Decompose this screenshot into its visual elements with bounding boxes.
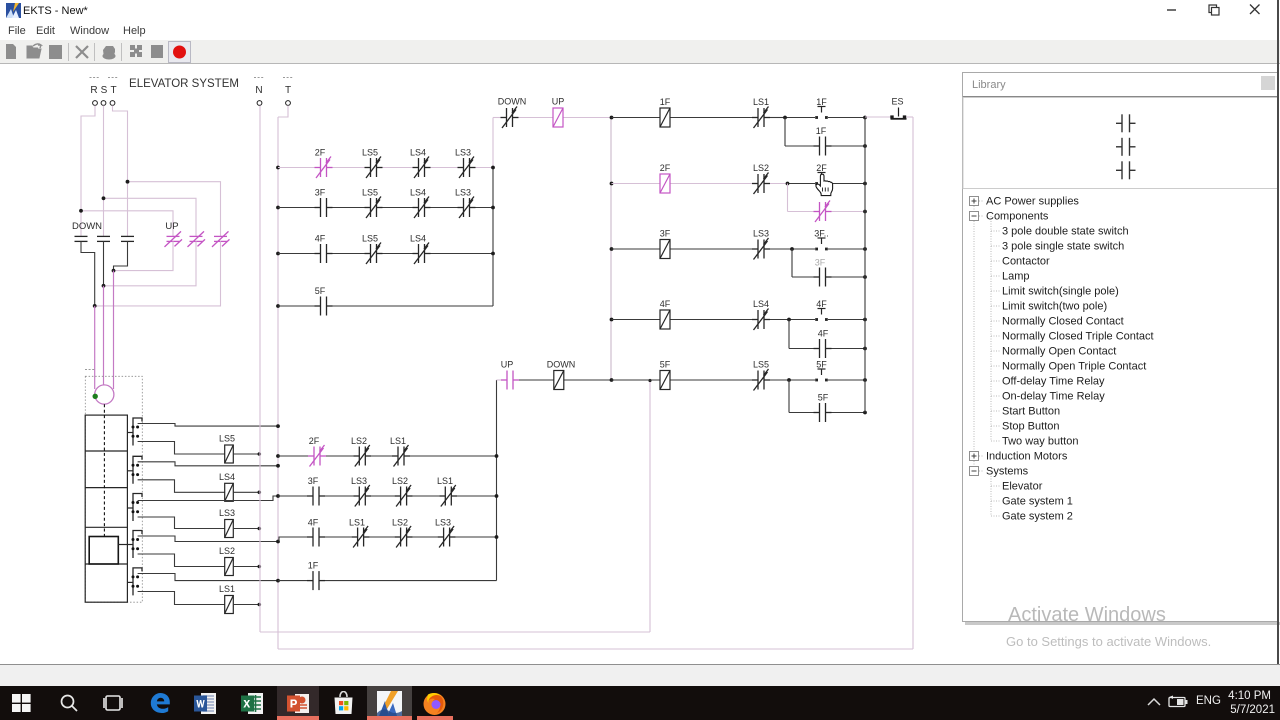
contact LS4 NC row3 — [413, 243, 431, 265]
tree node Components — [979, 215, 984, 217]
panel shadow — [965, 622, 1280, 625]
junction bus parallel 4F — [863, 347, 867, 351]
junction bus parallel 1F — [863, 144, 867, 148]
floor line 4/3 — [85, 487, 127, 489]
wire rowA segs — [278, 455, 308, 457]
contact UP NO rung2 — [501, 371, 519, 390]
contact LS1 NC rowA — [392, 445, 410, 467]
tree node Induction Motors — [979, 455, 984, 457]
junction parallel 4F — [787, 318, 791, 322]
new icon — [6, 44, 16, 59]
wire LS1 pole1 to rail — [138, 574, 278, 581]
library preview box — [963, 98, 1278, 189]
svg-text:2F: 2F — [660, 163, 671, 173]
wire shaft stub LS4 — [127, 470, 133, 472]
contact LS5 NC row1 — [365, 157, 383, 179]
svg-text:Induction Motors: Induction Motors — [986, 451, 1068, 463]
svg-text:1F: 1F — [816, 97, 827, 107]
svg-text:3F: 3F — [660, 229, 671, 239]
stop button ES — [891, 108, 907, 119]
junction bus parallel 5F — [863, 411, 867, 415]
junction T rail rowA — [276, 454, 280, 458]
tree node Systems — [979, 470, 984, 472]
motor run indicator — [93, 394, 98, 399]
svg-text:LS3: LS3 — [455, 148, 471, 158]
start button 3F — [818, 238, 826, 244]
window buttons — [1160, 0, 1280, 20]
wire rung 4F segs — [612, 319, 661, 321]
tree leaf Limit switch(two pole) — [991, 305, 1000, 307]
wire UP out 3 — [95, 241, 221, 306]
wire LS2 pole1 to rail — [138, 536, 278, 542]
firefox — [422, 691, 447, 716]
junction LS2 N rail — [258, 565, 262, 569]
wire LS3 to N rail — [233, 528, 258, 530]
contact LS5 NC rung 5F — [752, 369, 770, 391]
contact 5F NO row4 — [315, 297, 333, 316]
svg-text:Contactor: Contactor — [1002, 256, 1050, 268]
svg-text:LS3: LS3 — [435, 518, 451, 528]
contactor UP contact 3 — [212, 231, 230, 247]
record button (selected) — [169, 42, 191, 63]
wire N rail — [259, 106, 261, 633]
wire LS3 pole2 to switch — [138, 517, 225, 529]
wire branch S to UP 2 — [104, 198, 197, 236]
svg-text:3F: 3F — [308, 476, 319, 486]
svg-text:DOWN: DOWN — [498, 97, 527, 107]
start button 5F — [818, 369, 826, 375]
mouse cursor — [816, 174, 833, 195]
svg-text:LS3: LS3 — [455, 188, 471, 198]
limit switch LS5 — [225, 445, 234, 463]
wire right ladder rail — [610, 118, 612, 381]
wire to ES — [865, 116, 891, 118]
contact 2F NC parallel — [814, 201, 832, 223]
library panel — [962, 72, 1278, 622]
wire row1 segs — [278, 167, 315, 169]
wire phase S — [103, 106, 105, 237]
stop icon — [151, 45, 163, 58]
svg-text:LS1: LS1 — [437, 476, 453, 486]
title bar — [0, 0, 1280, 22]
wire shaft stub LS5 — [127, 432, 133, 434]
floor line 5/4 — [85, 450, 127, 452]
svg-text:Two way button: Two way button — [1002, 436, 1078, 448]
svg-text:Normally Closed Triple Contact: Normally Closed Triple Contact — [1002, 331, 1154, 343]
junction bus parallel 2F — [863, 210, 867, 214]
contact LS2 NC rowC — [395, 526, 413, 548]
wire LS1 to N rail — [233, 604, 258, 606]
contact LS2 NC rowA — [353, 445, 371, 467]
svg-text:Limit switch(single pole): Limit switch(single pole) — [1002, 286, 1119, 298]
excel — [241, 693, 264, 714]
wire motor feed 1 — [94, 306, 96, 389]
contact 3F NO parallel — [814, 268, 832, 287]
floor line 2/1 — [85, 563, 127, 565]
svg-text:LS1: LS1 — [219, 584, 235, 594]
coil 3F — [660, 240, 670, 259]
contact LS1 NC rowC — [352, 526, 370, 548]
tree leaf Normally Open Contact — [991, 350, 1000, 352]
tree leaf 3 pole single state switch — [991, 245, 1000, 247]
contact LS1 NC rung 1F — [752, 107, 770, 129]
svg-text:LS4: LS4 — [219, 472, 235, 482]
junction bus A row3 — [491, 252, 495, 256]
tree leaf Normally Closed Triple Contact — [991, 335, 1000, 337]
store — [332, 691, 355, 715]
junction rail rung 2F — [610, 182, 614, 186]
contact LS1 NC rowB — [439, 485, 457, 507]
contact 2F NC rowA — [308, 445, 326, 467]
wire bus B — [496, 380, 498, 581]
svg-text:3F: 3F — [315, 188, 326, 198]
delete icon — [76, 46, 88, 58]
svg-text:3F: 3F — [815, 258, 826, 268]
limit switch LS4 — [225, 483, 234, 501]
svg-text:Limit switch(two pole): Limit switch(two pole) — [1002, 301, 1107, 313]
wire parallel branch 1F — [784, 118, 786, 147]
coil 2F — [660, 174, 670, 193]
contact 4F NO parallel — [814, 339, 832, 358]
svg-text:1F: 1F — [660, 97, 671, 107]
taskbar — [0, 686, 1280, 720]
wire bus A upper — [492, 118, 494, 168]
junction T rail row4 — [276, 304, 280, 308]
svg-text:Start Button: Start Button — [1002, 406, 1060, 418]
wire phase T — [113, 106, 128, 237]
contactor DOWN contact 1 — [75, 236, 88, 241]
svg-text:LS3: LS3 — [753, 229, 769, 239]
contactor UP contact 1 — [165, 231, 183, 247]
svg-text:R: R — [90, 85, 97, 96]
svg-text:LS4: LS4 — [410, 188, 426, 198]
wire N return bottom — [260, 631, 650, 633]
wire bus A — [492, 168, 494, 307]
node R terminal dots — [90, 77, 100, 79]
tray — [1146, 697, 1162, 707]
task view — [103, 694, 123, 712]
wire T rail elbow — [278, 106, 288, 118]
contact DOWN NC — [501, 107, 519, 129]
elevator bounds marker — [85, 369, 95, 371]
junction LS4 N rail — [258, 491, 262, 495]
svg-text:4F: 4F — [315, 234, 326, 244]
svg-text:5F: 5F — [816, 360, 827, 370]
contact 4F NO rowC — [307, 528, 325, 547]
svg-text:S: S — [101, 85, 108, 96]
junction bus rung 4F — [863, 318, 867, 322]
junction parallel 2F — [786, 182, 790, 186]
svg-text:N: N — [255, 85, 262, 96]
contact LS5 NC row2 — [365, 197, 383, 219]
junction T rail row2 — [276, 206, 280, 210]
svg-text:LS1: LS1 — [753, 97, 769, 107]
wire shaft stub LS3 — [127, 507, 133, 509]
elevator component dashed bounds — [85, 376, 142, 602]
start button — [12, 694, 31, 712]
wire LS2 to N rail — [233, 566, 258, 568]
svg-text:DOWN: DOWN — [547, 360, 576, 370]
tree leaf Stop Button — [991, 425, 1000, 427]
wire rung 5F segs — [612, 379, 661, 381]
junction rail rung 1F — [610, 116, 614, 120]
svg-text:LS2: LS2 — [392, 518, 408, 528]
svg-text:LS1: LS1 — [349, 518, 365, 528]
svg-text:On-delay Time Relay: On-delay Time Relay — [1002, 391, 1105, 403]
limit switch bracket LS5 — [133, 418, 142, 446]
wire LS2 pole2 to switch — [138, 554, 225, 567]
tree leaf Elevator — [991, 485, 1000, 487]
junction motor wire 2 — [102, 284, 106, 288]
junction bus rung 2F — [863, 182, 867, 186]
powerpoint — [277, 686, 319, 720]
contact 2F NC row1 — [315, 157, 333, 179]
svg-text:LS3: LS3 — [219, 508, 235, 518]
bracket contacts LS5 — [132, 426, 135, 429]
junction T rail f5 — [276, 424, 280, 428]
svg-text:LS4: LS4 — [410, 234, 426, 244]
wire LS5 pole1 to rail — [138, 424, 278, 427]
svg-text:LS2: LS2 — [351, 436, 367, 446]
tree leaf Start Button — [991, 410, 1000, 412]
bracket contacts LS4 — [132, 464, 135, 467]
junction bus rung 3F — [863, 247, 867, 251]
wire UP out 2 — [104, 241, 197, 285]
contact LS3 NC rowC — [438, 526, 456, 548]
junction motor wire 1 — [112, 269, 116, 273]
svg-text:AC Power supplies: AC Power supplies — [986, 196, 1079, 208]
junction R-UP — [79, 209, 83, 213]
activate windows watermark — [1008, 604, 1166, 627]
contact 3F NO rowB — [307, 487, 325, 506]
junction T rail rowB — [276, 494, 280, 498]
svg-text:LS5: LS5 — [362, 188, 378, 198]
preview: normally open triple contact — [1116, 114, 1136, 179]
svg-text:ELEVATOR SYSTEM: ELEVATOR SYSTEM — [129, 78, 239, 90]
junction bus parallel 3F — [863, 275, 867, 279]
simulate icon — [130, 45, 135, 50]
junction bus rung 1F — [863, 116, 867, 120]
tree leaf Off-delay Time Relay — [991, 380, 1000, 382]
tree leaf Gate system 2 — [991, 515, 1000, 517]
wire rowD segs — [278, 580, 307, 582]
wire row3 segs — [278, 253, 315, 255]
search — [59, 693, 79, 713]
wire rowC segs — [279, 537, 307, 542]
wire DOWN out 2 — [103, 241, 105, 285]
svg-text:UP: UP — [552, 97, 565, 107]
svg-text:3F..: 3F.. — [814, 229, 829, 239]
wire parallel branch 4F — [788, 320, 790, 349]
wire branch R to UP 1 — [81, 211, 173, 237]
svg-text:Normally Open Triple Contact: Normally Open Triple Contact — [1002, 361, 1146, 373]
contact LS3 NC row1 — [458, 157, 476, 179]
tree leaf Lamp — [991, 275, 1000, 277]
limit switch bracket LS3 — [133, 494, 142, 522]
junction bus A row1 — [491, 166, 495, 170]
coil 1F — [660, 108, 670, 127]
junction bus A row2 — [491, 206, 495, 210]
junction bus B rowB — [495, 494, 499, 498]
junction parallel 3F — [790, 247, 794, 251]
contact LS3 NC row2 — [458, 197, 476, 219]
junction bus B rowC — [495, 535, 499, 539]
svg-text:Normally Open Contact: Normally Open Contact — [1002, 346, 1116, 358]
contactor DOWN contact 3 — [121, 236, 134, 241]
svg-text:2F: 2F — [816, 163, 827, 173]
junction T rail row1 — [276, 166, 280, 170]
wire T rail — [277, 117, 279, 649]
limit switch bracket LS1 — [133, 568, 142, 596]
wire DOWN out 3 — [114, 241, 128, 270]
contact 4F NO row3 — [315, 244, 333, 263]
svg-text:LS2: LS2 — [753, 163, 769, 173]
svg-text:1F: 1F — [308, 561, 319, 571]
status bar — [0, 664, 1280, 686]
svg-text:Off-delay Time Relay: Off-delay Time Relay — [1002, 376, 1105, 388]
svg-text:UP: UP — [165, 221, 178, 232]
contact LS3 NC rung 3F — [752, 238, 770, 260]
svg-text:5F: 5F — [660, 360, 671, 370]
limit switch LS1 — [225, 596, 234, 614]
tree leaf Two way button — [991, 440, 1000, 442]
save icon — [49, 45, 62, 59]
svg-text:Elevator: Elevator — [1002, 481, 1043, 493]
wire LS4 pole1 to rail — [138, 462, 278, 466]
junction N riser — [648, 379, 651, 382]
junction bus rung 5F — [863, 378, 867, 382]
wire parallel branch 2F — [787, 184, 789, 212]
svg-text:LS3: LS3 — [351, 476, 367, 486]
svg-text:4F: 4F — [660, 299, 671, 309]
open icon — [27, 46, 41, 58]
node T terminal dots — [108, 77, 118, 79]
contact LS4 NC row1 — [413, 157, 431, 179]
wire N return riser — [649, 381, 651, 633]
wire row2 segs — [278, 207, 315, 209]
wire phase R — [81, 106, 95, 237]
junction T rail rowD — [276, 579, 280, 583]
wire T return bottom — [278, 648, 913, 650]
wire rung 3F segs — [612, 248, 661, 250]
svg-text:DOWN: DOWN — [72, 221, 102, 232]
limit switch bracket LS2 — [133, 531, 142, 559]
ekts (active) — [367, 686, 412, 720]
wire rung 2F segs — [612, 183, 661, 185]
start button 4F — [818, 309, 826, 315]
limit switch LS3 — [225, 520, 234, 538]
edge — [149, 692, 171, 714]
wire LS4 to N rail — [233, 491, 258, 493]
svg-text:4F: 4F — [308, 518, 319, 528]
library tree connector lines — [973, 201, 975, 471]
bracket contacts LS2 — [132, 538, 135, 541]
tree leaf On-delay Time Relay — [991, 395, 1000, 397]
word — [194, 693, 217, 714]
wire LS4 pole2 to switch — [138, 480, 225, 493]
print icon — [103, 46, 115, 58]
svg-text:Systems: Systems — [986, 466, 1029, 478]
coil UP — [553, 108, 563, 127]
svg-text:2F: 2F — [315, 148, 326, 158]
contactor DOWN contact 2 — [97, 236, 110, 241]
junction LS5 N rail — [258, 452, 262, 456]
junction rail rung 3F — [610, 247, 614, 251]
wire rung2 segs — [497, 379, 502, 381]
contact LS3 NC rowB — [353, 485, 371, 507]
contact 1F NO rowD — [307, 571, 325, 590]
tree leaf Gate system 1 — [991, 500, 1000, 502]
svg-text:Components: Components — [986, 211, 1049, 223]
tree leaf Contactor — [991, 260, 1000, 262]
contact 1F NO parallel — [814, 137, 832, 156]
wire motor feed 2 — [103, 286, 105, 385]
svg-text:UP: UP — [501, 360, 514, 370]
junction LS1 N rail — [258, 603, 262, 607]
svg-text:5F: 5F — [818, 393, 829, 403]
svg-text:LS4: LS4 — [753, 299, 769, 309]
coil 5F — [660, 371, 670, 390]
contact LS4 NC row2 — [413, 197, 431, 219]
wire shaft stub LS2 — [118, 544, 133, 546]
limit switch LS2 — [225, 558, 234, 576]
svg-text:LS2: LS2 — [219, 546, 235, 556]
contactor UP contact 2 — [188, 231, 206, 247]
wire motor feed 3 — [113, 271, 115, 389]
contact LS5 NC row3 — [365, 243, 383, 265]
wire ES to T return — [907, 116, 914, 118]
wire right bus — [864, 118, 866, 413]
svg-text:Normally Closed Contact: Normally Closed Contact — [1002, 316, 1124, 328]
wire UP out 1 — [114, 241, 174, 270]
svg-text:Lamp: Lamp — [1002, 271, 1030, 283]
junction motor wire 3 — [93, 304, 97, 308]
wire DOWN out 1 — [81, 241, 95, 306]
coil 4F — [660, 310, 670, 329]
right window border — [1277, 0, 1279, 664]
wire LS1 pole2 to switch — [138, 592, 225, 605]
junction T rail row3 — [276, 252, 280, 256]
contact 3F NO row2 — [315, 198, 333, 217]
wire parallel branch 5F — [788, 380, 790, 413]
svg-text:LS2: LS2 — [392, 476, 408, 486]
svg-text:1F: 1F — [816, 126, 827, 136]
contact LS2 NC rowB — [395, 485, 413, 507]
junction parallel 5F — [787, 378, 791, 382]
start button 1F — [818, 107, 826, 113]
svg-text:LS4: LS4 — [410, 148, 426, 158]
svg-text:LS5: LS5 — [362, 234, 378, 244]
svg-text:2F: 2F — [309, 436, 320, 446]
wire LS5 pole2 to switch — [138, 442, 225, 455]
tree leaf Normally Closed Contact — [991, 320, 1000, 322]
junction rail rung 4F — [610, 318, 614, 322]
bracket contacts LS3 — [132, 501, 135, 504]
svg-text:LS5: LS5 — [362, 148, 378, 158]
wire rowB segs — [278, 495, 307, 497]
node N terminal dots — [254, 77, 264, 79]
svg-text:LS5: LS5 — [219, 434, 235, 444]
wire branch T to UP 3 — [128, 182, 221, 237]
elevator car — [89, 537, 118, 565]
svg-text:T: T — [285, 85, 291, 96]
svg-text:Gate system 2: Gate system 2 — [1002, 511, 1073, 523]
tree leaf Normally Open Triple Contact — [991, 365, 1000, 367]
motor M — [95, 385, 114, 404]
tree leaf 3 pole double state switch — [991, 230, 1000, 232]
toolbar — [0, 40, 1280, 64]
svg-text:T: T — [110, 85, 116, 96]
